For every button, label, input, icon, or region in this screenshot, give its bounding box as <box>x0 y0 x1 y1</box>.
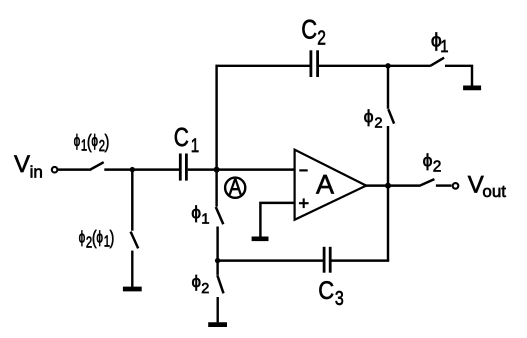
svg-text:ϕ: ϕ <box>96 229 103 247</box>
svg-text:C: C <box>318 277 334 305</box>
svg-text:C: C <box>301 16 317 45</box>
wire S4 to ground <box>216 297 218 322</box>
label C1 <box>174 123 189 151</box>
label phi1(phi2) <box>74 131 110 155</box>
node junction J2 <box>215 258 220 263</box>
switch S1 phi1(phi2) arm <box>89 162 103 170</box>
svg-text:): ) <box>110 227 115 249</box>
switch S2 phi2(phi1) arm <box>131 232 139 249</box>
ground G4 <box>252 237 269 242</box>
svg-text:2: 2 <box>374 116 382 132</box>
capacitor C3 right plate <box>329 247 332 273</box>
node Vout output terminal <box>453 183 459 189</box>
wire S2 to ground <box>131 251 133 287</box>
wire S5 to ground corner <box>445 66 472 86</box>
capacitor C3 left plate <box>323 247 326 273</box>
ground G2 <box>208 322 227 327</box>
switch S5 phi1 arm <box>431 58 445 66</box>
ground G1 <box>123 287 142 292</box>
capacitor C2 left plate <box>309 50 312 77</box>
capacitor C1 right plate <box>185 154 188 181</box>
svg-text:ϕ: ϕ <box>91 132 98 150</box>
node J4 output junction <box>385 183 391 189</box>
wire S6 down through output node to C3 <box>387 126 389 261</box>
switch S7 phi2 arm <box>419 179 434 186</box>
op-amp U1 minus sign <box>299 169 307 171</box>
svg-text:A: A <box>316 170 334 200</box>
capacitor C1 left plate <box>179 154 182 181</box>
svg-text:2: 2 <box>433 159 442 176</box>
svg-text:in: in <box>30 162 43 181</box>
node junction J3 <box>385 63 390 68</box>
wire C3 to output branch corner <box>331 259 389 261</box>
svg-text:ϕ: ϕ <box>79 229 86 247</box>
switch S4 phi2 arm <box>217 275 223 293</box>
wire Vin terminal to switch <box>58 168 90 170</box>
capacitor C2 right plate <box>316 50 319 77</box>
op-amp U1 plus sign <box>299 202 309 204</box>
svg-text:C: C <box>174 123 189 151</box>
svg-text:out: out <box>482 182 506 201</box>
wire op-amp plus input to ground <box>260 203 294 237</box>
op-amp U1 triangle <box>295 150 367 220</box>
switch S6 phi2 arm <box>388 109 394 123</box>
wire top feedback line left segment <box>216 65 310 67</box>
svg-text:ϕ: ϕ <box>74 132 81 150</box>
switch S3 phi1 arm <box>216 207 224 224</box>
wire J2 down to switch S4 <box>216 261 218 275</box>
svg-text:2: 2 <box>201 281 209 297</box>
node A circled label <box>225 178 245 198</box>
node A junction dot <box>214 167 220 173</box>
wire S7 to Vout terminal <box>436 184 452 186</box>
label phi2(phi1) <box>79 227 115 251</box>
wire S3 to bottom junction J2 <box>216 227 218 261</box>
svg-text:1: 1 <box>191 134 199 156</box>
wire C1 to op-amp inverting input <box>188 168 295 170</box>
label C2 <box>301 16 317 45</box>
node junction J1 <box>130 167 135 172</box>
svg-text:V: V <box>14 151 30 178</box>
node Vin input terminal <box>52 167 58 173</box>
wire node A down to switch S3 <box>215 170 217 207</box>
svg-text:3: 3 <box>335 287 344 309</box>
svg-text:1: 1 <box>201 210 209 227</box>
wire switch to C1 <box>104 168 179 170</box>
wire op-amp output to switch S7 <box>365 184 419 186</box>
wire J3 down to switch S6 <box>387 66 389 109</box>
label C3 <box>318 277 334 305</box>
wire J1 down to switch S2 <box>131 170 133 231</box>
svg-text:ϕ: ϕ <box>191 202 201 222</box>
svg-text:1: 1 <box>440 37 448 56</box>
svg-text:): ) <box>105 131 110 153</box>
wire J2 to C3 <box>218 259 323 261</box>
wire node A up to top feedback line <box>215 65 217 170</box>
svg-text:2: 2 <box>317 27 326 49</box>
svg-text:ϕ: ϕ <box>423 150 433 170</box>
svg-text:ϕ: ϕ <box>364 107 374 127</box>
wire C2 to switch S5 <box>319 65 431 67</box>
ground G3 <box>463 86 481 91</box>
svg-text:A: A <box>229 175 242 199</box>
svg-text:ϕ: ϕ <box>192 272 202 291</box>
